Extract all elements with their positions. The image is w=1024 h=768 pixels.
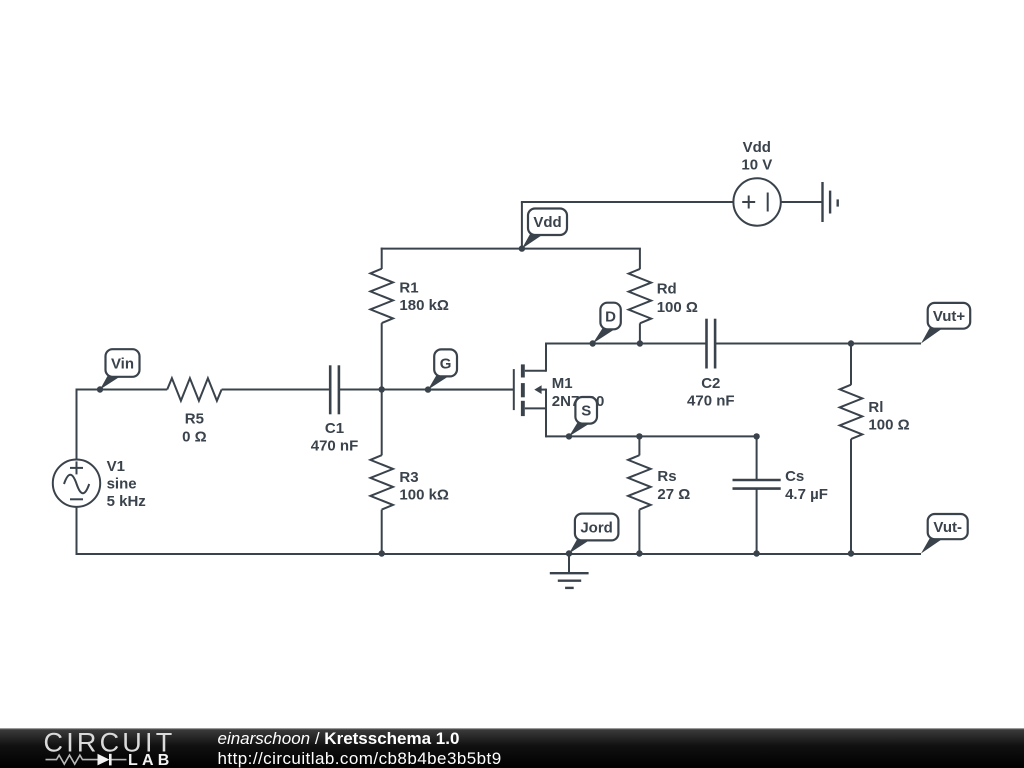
svg-text:LAB: LAB bbox=[128, 752, 173, 768]
resistor R5 bbox=[167, 378, 221, 445]
svg-text:V1: V1 bbox=[107, 458, 125, 475]
svg-text:100 Ω: 100 Ω bbox=[868, 416, 909, 433]
footer bar bbox=[0, 728, 1024, 768]
svg-text:Rd: Rd bbox=[657, 281, 677, 298]
node R3 bottom junction bbox=[379, 550, 385, 556]
resistor R3 100 kOhm bbox=[370, 389, 449, 556]
svg-text:C2: C2 bbox=[701, 375, 720, 392]
wire Vdd source to ground bbox=[781, 201, 823, 203]
node S junction bbox=[566, 433, 572, 439]
node Jord junction bbox=[566, 550, 572, 556]
wire C1 to gate of M1 bbox=[339, 389, 514, 391]
svg-text:C1: C1 bbox=[325, 420, 344, 437]
svg-text:S: S bbox=[581, 403, 591, 420]
MOSFET M1 2N7000 bbox=[430, 343, 604, 438]
node Rl top junction bbox=[848, 340, 854, 346]
bottom rail wire bbox=[76, 553, 922, 555]
svg-text:100 Ω: 100 Ω bbox=[657, 299, 698, 316]
svg-text:Vut+: Vut+ bbox=[933, 308, 966, 325]
svg-text:Cs: Cs bbox=[785, 468, 804, 485]
node Rs top junction bbox=[636, 433, 642, 439]
node Cs top junction bbox=[753, 433, 759, 439]
svg-text:R5: R5 bbox=[185, 411, 204, 428]
logo resistor-diode wire bbox=[46, 754, 127, 766]
svg-text:Rs: Rs bbox=[657, 468, 676, 485]
wire Vin node to R5 bbox=[76, 389, 168, 391]
node Vin junction bbox=[97, 386, 103, 392]
svg-text:M1: M1 bbox=[552, 375, 573, 392]
capacitor C1 470 nF bbox=[311, 365, 359, 454]
svg-text:10 V: 10 V bbox=[741, 157, 772, 174]
svg-text:sine: sine bbox=[107, 476, 137, 493]
svg-text:G: G bbox=[440, 355, 452, 372]
svg-text:27 Ω: 27 Ω bbox=[657, 486, 690, 503]
wire V1 bottom to bottom rail bbox=[76, 507, 78, 555]
wire C2 to Vut+ bbox=[715, 343, 921, 345]
source rail wire bbox=[546, 435, 757, 437]
node Rl bottom junction bbox=[848, 550, 854, 556]
label tag Jord bbox=[569, 514, 618, 554]
svg-text:470 nF: 470 nF bbox=[687, 392, 735, 409]
svg-text:470 nF: 470 nF bbox=[311, 437, 359, 454]
node Vdd junction bbox=[519, 245, 525, 251]
resistor R1 180 kOhm bbox=[370, 248, 449, 390]
label tag G bbox=[428, 349, 457, 389]
capacitor Cs 4.7 uF bbox=[733, 435, 828, 555]
wire left vertical from Vin node down to V1 top bbox=[76, 389, 78, 460]
label tag S bbox=[569, 397, 597, 436]
svg-text:einarschoon / Kretsschema 1.0: einarschoon / Kretsschema 1.0 bbox=[218, 729, 460, 748]
resistor Rs 27 Ohm bbox=[628, 436, 690, 555]
node D junction bbox=[590, 340, 596, 346]
resistor Rd 100 Ohm bbox=[629, 249, 698, 345]
Vdd top rail wire bbox=[381, 248, 641, 250]
wire R5 to C1 bbox=[222, 389, 331, 391]
node Cs bottom junction bbox=[753, 550, 759, 556]
node G junction bbox=[425, 386, 431, 392]
svg-text:Rl: Rl bbox=[868, 399, 883, 416]
svg-text:5 kHz: 5 kHz bbox=[107, 493, 146, 510]
resistor Rl 100 Ohm bbox=[840, 343, 910, 556]
node Rs bottom junction bbox=[636, 550, 642, 556]
svg-text:0 Ω: 0 Ω bbox=[182, 429, 207, 446]
label tag Vin bbox=[100, 349, 140, 389]
svg-text:Vin: Vin bbox=[111, 355, 134, 372]
svg-text:http://circuitlab.com/cb8b4be3: http://circuitlab.com/cb8b4be3b5bt9 bbox=[218, 749, 502, 768]
svg-text:100 kΩ: 100 kΩ bbox=[399, 486, 449, 503]
svg-text:180 kΩ: 180 kΩ bbox=[399, 297, 449, 314]
capacitor C2 470 nF bbox=[687, 319, 735, 410]
label tag Vdd bbox=[522, 209, 567, 249]
svg-text:Vdd: Vdd bbox=[743, 139, 771, 156]
ground symbol right of Vdd source bbox=[823, 182, 838, 222]
svg-text:Jord: Jord bbox=[580, 519, 613, 536]
svg-text:Vut-: Vut- bbox=[933, 519, 962, 536]
wire Vdd stub vertical and horizontal to source bbox=[521, 202, 734, 248]
ground symbol Jord bbox=[550, 554, 589, 588]
label tag Vut- bbox=[921, 514, 968, 554]
node Rd bottom junction bbox=[637, 340, 643, 346]
voltage source Vdd 10 V bbox=[733, 139, 780, 226]
svg-text:4.7 µF: 4.7 µF bbox=[785, 486, 828, 503]
svg-text:D: D bbox=[605, 308, 616, 325]
label tag Vut+ bbox=[921, 303, 970, 344]
svg-text:R1: R1 bbox=[399, 280, 418, 297]
voltage source V1 sine bbox=[53, 458, 146, 510]
label tag D bbox=[593, 303, 621, 344]
drain rail wire bbox=[546, 343, 707, 345]
svg-text:R3: R3 bbox=[399, 469, 418, 486]
svg-text:Vdd: Vdd bbox=[533, 214, 561, 231]
node junction C1/R1/R3 bbox=[379, 386, 385, 392]
